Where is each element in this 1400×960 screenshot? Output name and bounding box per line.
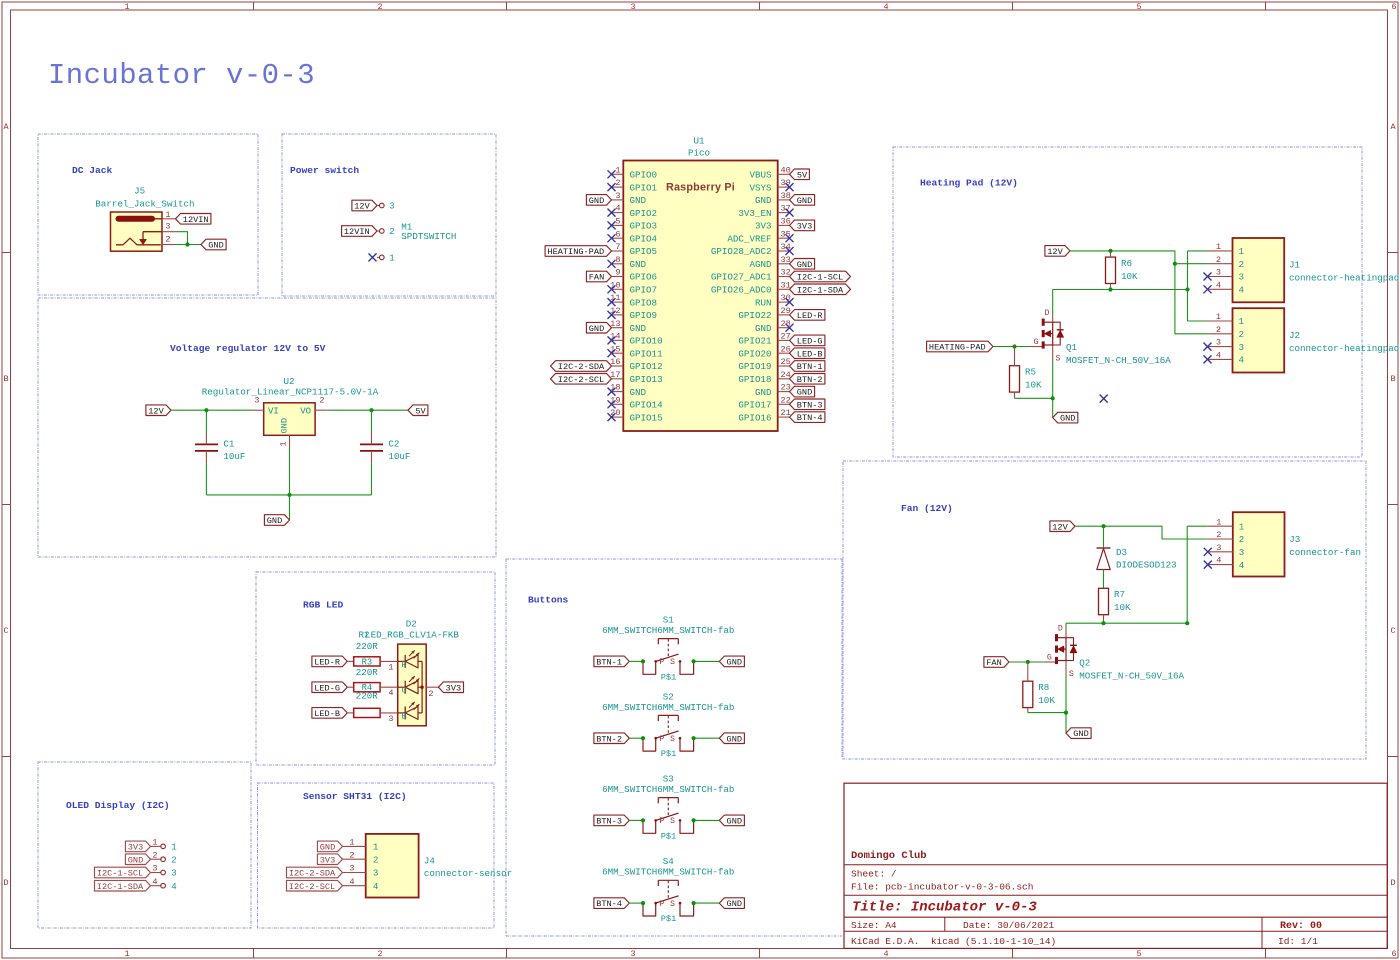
svg-text:BTN-3: BTN-3 [596, 817, 622, 827]
svg-text:I2C-1-SCL: I2C-1-SCL [97, 869, 143, 879]
svg-text:Buttons: Buttons [528, 594, 569, 605]
net label LED-G [790, 335, 825, 346]
svg-text:4: 4 [1239, 355, 1245, 366]
svg-text:B: B [1390, 374, 1395, 384]
svg-text:P$1: P$1 [661, 914, 676, 924]
svg-text:I2C-1-SCL: I2C-1-SCL [797, 273, 843, 283]
net label GND [586, 195, 611, 206]
svg-text:R6: R6 [1121, 258, 1132, 269]
svg-text:1: 1 [1239, 521, 1245, 532]
capacitor C1 10uF [195, 438, 245, 462]
junction GND rail at U2 [287, 493, 291, 497]
no-connect J2 pin 4 [1204, 355, 1212, 363]
connector J5 Barrel_Jack_Switch [95, 186, 194, 252]
svg-text:P: P [659, 735, 664, 744]
wire 12V to D3 cathode [1103, 526, 1105, 548]
net label GND [719, 815, 744, 826]
svg-text:3: 3 [615, 191, 620, 201]
svg-text:Domingo Club: Domingo Club [851, 850, 927, 862]
svg-text:S3: S3 [663, 774, 674, 785]
section box DC Jack [38, 134, 258, 295]
svg-text:9: 9 [615, 268, 620, 278]
section title Voltage regulator [170, 343, 326, 354]
svg-text:G: G [1034, 338, 1039, 347]
wire S3 to GND [694, 819, 720, 821]
svg-text:5V: 5V [797, 170, 808, 180]
net label LED-R [312, 656, 347, 667]
svg-text:3: 3 [630, 2, 635, 12]
svg-text:Raspberry Pi: Raspberry Pi [666, 182, 735, 194]
svg-text:3V3: 3V3 [797, 222, 812, 232]
net label 3V3 [438, 682, 463, 693]
diode D3 DIODESOD123 [1097, 547, 1177, 571]
net label GND [1053, 412, 1078, 423]
junction GND at Q1 source [1051, 396, 1055, 400]
no-connect J3 pin 3 [1204, 548, 1212, 556]
svg-text:2: 2 [428, 689, 433, 699]
svg-text:1: 1 [152, 838, 157, 848]
svg-text:2: 2 [377, 2, 382, 12]
wire BTN-2 to S2 [629, 737, 643, 739]
svg-text:12V: 12V [1052, 522, 1068, 532]
no-connect U1 pin 34 [786, 247, 794, 255]
connector J2 connector-heatingpad- [1208, 308, 1400, 372]
svg-text:10uF: 10uF [388, 451, 410, 462]
svg-text:Q1: Q1 [1066, 342, 1078, 353]
net label 3V3 [790, 220, 815, 231]
svg-text:GPIO10: GPIO10 [630, 336, 663, 347]
svg-text:2: 2 [1239, 534, 1245, 545]
svg-text:2: 2 [615, 178, 620, 188]
net label GND [1066, 728, 1091, 739]
net label LED-G [312, 682, 347, 693]
svg-text:FAN: FAN [986, 658, 1001, 668]
svg-text:6MM_SWITCH6MM_SWITCH-fab: 6MM_SWITCH6MM_SWITCH-fab [602, 784, 734, 795]
svg-text:FAN: FAN [589, 273, 604, 283]
svg-text:GND: GND [630, 387, 647, 398]
LED D2 LED_RGB_CLV1A-FKB [365, 619, 459, 726]
svg-text:DC Jack: DC Jack [72, 165, 113, 176]
junction S1 right [692, 659, 696, 663]
svg-text:2: 2 [373, 854, 379, 865]
net label I2C-2-SCL [551, 374, 612, 385]
svg-text:GND: GND [320, 843, 335, 853]
connector OLED display header [151, 838, 177, 892]
section title Heating Pad [920, 178, 1018, 189]
svg-text:BTN-1: BTN-1 [596, 658, 622, 668]
net label GND [790, 259, 815, 270]
svg-text:1: 1 [388, 662, 393, 672]
section box Buttons [506, 559, 842, 936]
section box Power switch [282, 134, 496, 296]
svg-text:3: 3 [1239, 272, 1245, 283]
net label 5V [790, 169, 810, 180]
wire drain to J1/J2 pin 1 [1187, 251, 1189, 321]
no-connect J2 pin 3 [1204, 343, 1212, 351]
svg-text:ADC_VREF: ADC_VREF [727, 233, 771, 244]
svg-text:connector-heatingpad-: connector-heatingpad- [1289, 273, 1400, 284]
svg-text:GND: GND [727, 734, 742, 744]
net label BTN-3 [790, 399, 825, 410]
switch M1 SPDTSWITCH [377, 202, 456, 264]
svg-text:GND: GND [727, 899, 742, 909]
no-connect U1 pin 19 [608, 400, 616, 408]
junction drain at R7 [1101, 621, 1105, 625]
no-connect U1 pin 15 [608, 349, 616, 357]
no-connect M1 pin 1 [369, 253, 377, 261]
svg-text:D3: D3 [1116, 547, 1127, 558]
svg-text:J1: J1 [1289, 260, 1301, 271]
svg-text:4: 4 [152, 877, 157, 887]
svg-text:J2: J2 [1289, 330, 1300, 341]
svg-text:J5: J5 [134, 186, 145, 197]
svg-text:Q2: Q2 [1079, 658, 1090, 669]
resistor R7 10K [1099, 588, 1132, 614]
no-connect U1 pin 5 [608, 221, 616, 229]
net label GND [790, 195, 815, 206]
net label HEATING-PAD [927, 341, 993, 352]
label Q1 values [1066, 342, 1171, 366]
svg-text:MOSFET_N-CH_50V_16A: MOSFET_N-CH_50V_16A [1079, 671, 1184, 682]
section title Buttons [528, 594, 569, 605]
svg-text:LED-G: LED-G [797, 337, 823, 347]
svg-text:3: 3 [1239, 342, 1245, 353]
wire FAN to Q2 gate [1009, 661, 1044, 663]
svg-text:220R: 220R [356, 641, 379, 652]
svg-text:2: 2 [349, 850, 354, 860]
svg-text:1: 1 [389, 254, 394, 264]
svg-text:G: G [1047, 653, 1052, 662]
svg-text:3: 3 [1216, 543, 1221, 553]
net label I2C-1-SCL [95, 867, 151, 878]
svg-text:GND: GND [797, 388, 812, 398]
wire C2 top [371, 410, 373, 432]
svg-text:12VIN: 12VIN [344, 227, 370, 237]
svg-text:1: 1 [1216, 517, 1221, 527]
svg-text:3V3_EN: 3V3_EN [738, 208, 771, 219]
svg-text:6MM_SWITCH6MM_SWITCH-fab: 6MM_SWITCH6MM_SWITCH-fab [602, 625, 734, 636]
svg-text:GND: GND [280, 418, 290, 433]
no-connect U1 pin 37 [786, 209, 794, 217]
svg-text:connector-fan: connector-fan [1289, 547, 1361, 558]
svg-text:GPIO12: GPIO12 [630, 361, 663, 372]
svg-text:1: 1 [165, 210, 170, 220]
svg-text:I2C-2-SCL: I2C-2-SCL [558, 375, 604, 385]
svg-text:GPIO16: GPIO16 [738, 412, 771, 423]
svg-text:GPIO0: GPIO0 [630, 170, 658, 181]
svg-text:GPIO4: GPIO4 [630, 233, 658, 244]
svg-text:LED-B: LED-B [314, 709, 340, 719]
svg-text:Pico: Pico [688, 148, 710, 159]
svg-text:3: 3 [1216, 268, 1221, 278]
net label LED-B [312, 708, 347, 719]
svg-text:2: 2 [377, 949, 382, 959]
svg-text:U1: U1 [693, 136, 705, 147]
svg-text:GND: GND [589, 196, 604, 206]
junction gate at R5 [1012, 344, 1016, 348]
wire 12V to U2 VI [171, 409, 251, 411]
svg-text:GPIO17: GPIO17 [738, 400, 771, 411]
svg-text:J4: J4 [424, 856, 436, 867]
svg-text:GPIO21: GPIO21 [738, 336, 772, 347]
svg-text:Incubator v-0-3: Incubator v-0-3 [48, 59, 315, 92]
junction S3 right [692, 818, 696, 822]
svg-text:2: 2 [319, 396, 324, 406]
no-connect U1 pin 14 [608, 336, 616, 344]
wire GND rail to label [289, 495, 291, 520]
svg-text:GPIO2: GPIO2 [630, 208, 658, 219]
junction drain branch [1185, 287, 1189, 291]
svg-text:LED-R: LED-R [797, 311, 823, 321]
svg-text:Title: Incubator v-0-3: Title: Incubator v-0-3 [852, 900, 1037, 916]
connector J4 connector-sensor [343, 834, 513, 898]
svg-text:G: G [402, 686, 407, 696]
svg-text:3: 3 [388, 714, 393, 724]
section box RGB LED [256, 572, 495, 765]
wire Q2 drain net [1066, 622, 1187, 624]
svg-text:I2C-2-SCL: I2C-2-SCL [289, 882, 335, 892]
svg-text:4: 4 [1216, 280, 1221, 290]
svg-text:4: 4 [615, 204, 620, 214]
svg-text:1: 1 [1216, 242, 1221, 252]
net label 3V3 [317, 854, 342, 865]
svg-text:2: 2 [1216, 530, 1221, 540]
svg-text:I2C-1-SDA: I2C-1-SDA [97, 882, 144, 892]
svg-text:4: 4 [1239, 560, 1245, 571]
svg-text:1: 1 [1239, 246, 1245, 257]
junction S2 left [641, 736, 645, 740]
svg-text:3: 3 [349, 864, 354, 874]
net label GND [201, 239, 226, 250]
svg-text:GPIO15: GPIO15 [630, 412, 663, 423]
svg-text:GPIO1: GPIO1 [630, 182, 658, 193]
svg-text:1: 1 [1216, 312, 1221, 322]
svg-text:AGND: AGND [749, 259, 772, 270]
svg-text:Power switch: Power switch [290, 165, 359, 176]
svg-text:P: P [659, 658, 664, 667]
net label 12V [1045, 246, 1070, 257]
svg-text:3: 3 [373, 868, 379, 879]
svg-text:OLED Display (I2C): OLED Display (I2C) [66, 800, 170, 811]
junction S4 left [641, 901, 645, 905]
svg-text:1: 1 [279, 441, 289, 446]
svg-text:P$1: P$1 [661, 749, 676, 759]
svg-text:6: 6 [1391, 949, 1396, 959]
no-connect J1 pin 3 [1204, 273, 1212, 281]
svg-text:Fan (12V): Fan (12V) [901, 503, 953, 514]
svg-text:MOSFET_N-CH_50V_16A: MOSFET_N-CH_50V_16A [1066, 355, 1171, 366]
svg-text:Barrel_Jack_Switch: Barrel_Jack_Switch [95, 199, 194, 210]
svg-text:3: 3 [630, 949, 635, 959]
transistor Q1 MOSFET_N-CH_50V_16A [1031, 309, 1064, 364]
svg-text:3: 3 [152, 864, 157, 874]
svg-text:I2C-2-SDA: I2C-2-SDA [558, 362, 605, 372]
no-connect U1 pin 20 [608, 413, 616, 421]
wire drain to J3 pin 1 [1187, 525, 1208, 527]
svg-text:R: R [402, 660, 407, 670]
svg-text:Sheet: /: Sheet: / [851, 869, 897, 880]
net label GND [264, 515, 289, 526]
wire C1 top [205, 410, 207, 432]
svg-text:3: 3 [165, 222, 170, 232]
junction 12V at D3 [1101, 524, 1105, 528]
svg-text:S: S [670, 817, 675, 826]
svg-text:BTN-2: BTN-2 [797, 375, 823, 385]
svg-text:BTN-4: BTN-4 [797, 413, 823, 423]
svg-text:GPIO28_ADC2: GPIO28_ADC2 [711, 246, 772, 257]
svg-text:2: 2 [1239, 259, 1245, 270]
net label BTN-2 [790, 374, 825, 385]
section title Sensor SHT31 [303, 791, 407, 802]
svg-text:1: 1 [373, 842, 379, 853]
wire drain to J3 pin 1 vertical [1186, 526, 1188, 623]
net label I2C-2-SDA [551, 361, 612, 372]
net label HEATING-PAD [545, 246, 611, 257]
wire Q1 source to GND [1052, 360, 1054, 418]
svg-text:Sensor SHT31 (I2C): Sensor SHT31 (I2C) [303, 791, 407, 802]
svg-text:DIODESOD123: DIODESOD123 [1116, 560, 1177, 571]
svg-text:6MM_SWITCH6MM_SWITCH-fab: 6MM_SWITCH6MM_SWITCH-fab [602, 867, 734, 878]
no-connect J1 pin 4 [1204, 285, 1212, 293]
no-connect J3 pin 4 [1204, 561, 1212, 569]
svg-text:5: 5 [1136, 2, 1141, 12]
svg-text:12V: 12V [148, 406, 164, 416]
svg-text:C: C [1390, 626, 1395, 636]
wire Q2 source to GND [1065, 676, 1067, 734]
net label I2C-2-SDA [287, 867, 343, 878]
switch S1 6MM_SWITCH [602, 615, 734, 683]
svg-text:GND: GND [128, 855, 143, 865]
svg-text:D2: D2 [406, 619, 417, 630]
svg-text:1: 1 [171, 843, 176, 853]
svg-text:S: S [670, 735, 675, 744]
junction gate at R8 [1026, 660, 1030, 664]
svg-text:GPIO26_ADC0: GPIO26_ADC0 [711, 285, 772, 296]
net label GND [719, 733, 744, 744]
svg-text:C1: C1 [223, 438, 235, 449]
svg-text:S1: S1 [663, 615, 675, 626]
section box Heating Pad [893, 147, 1362, 457]
net label 12V [1050, 521, 1075, 532]
net label GND [125, 854, 150, 865]
svg-text:8: 8 [615, 255, 620, 265]
svg-text:3: 3 [254, 396, 259, 406]
junction GND net at J5 [185, 242, 189, 246]
net label BTN-1 [594, 656, 629, 667]
svg-text:VBUS: VBUS [749, 170, 772, 181]
wire HEATING-PAD to Q1 gate [993, 346, 1031, 348]
svg-text:GND: GND [727, 658, 742, 668]
svg-text:KiCad E.D.A. kicad (5.1.10-1-: KiCad E.D.A. kicad (5.1.10-1-10_14) [851, 936, 1056, 947]
svg-text:4: 4 [1216, 556, 1221, 566]
svg-text:2: 2 [1239, 329, 1245, 340]
svg-text:3: 3 [389, 202, 394, 212]
wire drain to J1 pin 1 [1188, 250, 1208, 252]
wire BTN-4 to S4 [629, 902, 643, 904]
svg-text:S4: S4 [663, 856, 675, 867]
svg-text:3: 3 [1216, 338, 1221, 348]
wire 12V to J3 pin 2 [1075, 526, 1208, 539]
svg-text:Rev: 00: Rev: 00 [1280, 921, 1322, 932]
label Q2 values [1079, 658, 1184, 682]
svg-text:LED_RGB_CLV1A-FKB: LED_RGB_CLV1A-FKB [365, 630, 459, 641]
svg-text:1: 1 [1239, 316, 1245, 327]
wire drain vertical Q1 [1052, 290, 1054, 315]
svg-text:GND: GND [1060, 414, 1075, 424]
svg-text:4: 4 [349, 877, 354, 887]
svg-text:10K: 10K [1114, 602, 1131, 613]
junction 5V at C2 [369, 408, 373, 412]
section box Fan [843, 461, 1366, 759]
svg-text:GND: GND [630, 323, 647, 334]
svg-text:2: 2 [389, 227, 394, 237]
svg-text:12V: 12V [1047, 247, 1063, 257]
net label BTN-1 [790, 361, 825, 372]
connector J1 connector-heatingpad- [1208, 238, 1400, 302]
svg-text:BTN-1: BTN-1 [797, 362, 823, 372]
svg-text:SPDTSWITCH: SPDTSWITCH [401, 231, 456, 242]
svg-text:4: 4 [883, 949, 888, 959]
svg-text:BTN-4: BTN-4 [596, 899, 622, 909]
no-connect U1 pin 30 [786, 298, 794, 306]
net label FAN [586, 271, 611, 282]
svg-text:A: A [1390, 122, 1396, 132]
section box OLED Display [38, 762, 251, 928]
net label FAN [984, 657, 1009, 668]
section box Sensor SHT31 [258, 783, 495, 928]
net label GND [586, 322, 611, 333]
svg-text:P$1: P$1 [661, 672, 676, 682]
svg-text:R8: R8 [1038, 682, 1049, 693]
section title RGB LED [303, 599, 344, 610]
net label 12V [352, 200, 377, 211]
svg-text:3V3: 3V3 [320, 855, 335, 865]
svg-text:GND: GND [630, 195, 647, 206]
svg-text:GPIO22: GPIO22 [738, 310, 771, 321]
svg-text:S: S [1069, 670, 1074, 679]
wire U2 GND pin [289, 447, 291, 495]
svg-text:1: 1 [615, 165, 620, 175]
wire J5 pin3 to GND net [176, 232, 188, 245]
svg-text:1: 1 [124, 949, 129, 959]
no-connect U1 pin 18 [608, 388, 616, 396]
svg-text:GND: GND [267, 516, 282, 526]
no-connect U1 pin 35 [786, 234, 794, 242]
svg-text:P$1: P$1 [661, 831, 676, 841]
switch S4 6MM_SWITCH [602, 856, 734, 924]
svg-text:BTN-3: BTN-3 [797, 400, 823, 410]
svg-text:GND: GND [755, 195, 772, 206]
net label 12VIN [342, 226, 377, 237]
svg-text:S: S [670, 900, 675, 909]
wire GND rail [206, 494, 371, 496]
svg-text:GPIO27_ADC1: GPIO27_ADC1 [711, 272, 772, 283]
svg-text:LED-B: LED-B [797, 349, 823, 359]
svg-text:6: 6 [615, 229, 620, 239]
no-connect flag near Q1 [1100, 395, 1108, 403]
svg-text:GND: GND [727, 817, 742, 827]
capacitor C2 10uF [360, 438, 410, 462]
svg-text:R7: R7 [1114, 589, 1125, 600]
svg-text:1: 1 [349, 838, 354, 848]
svg-text:4: 4 [373, 881, 379, 892]
regulator U2 Regulator_Linear_NCP1117-5.0V-1A [202, 376, 379, 447]
svg-text:4: 4 [883, 2, 888, 12]
svg-text:4: 4 [171, 882, 176, 892]
svg-text:HEATING-PAD: HEATING-PAD [929, 343, 986, 353]
resistor R3 220R [347, 641, 380, 667]
net label BTN-4 [594, 898, 629, 909]
